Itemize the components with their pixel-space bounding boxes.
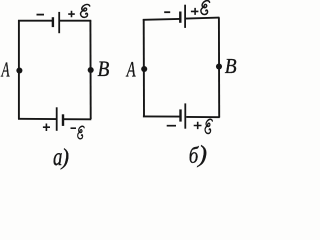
circuit a): top wire right segment (60, 20, 91, 22)
circuit b): bottom wire right segment (186, 116, 220, 118)
svg-text:B: B (98, 58, 110, 81)
circuit b): bottom wire left segment (143, 115, 180, 117)
node A (circuit a) (16, 67, 22, 73)
label minus of GB2 (71, 127, 77, 129)
circuit b): right wire (218, 17, 220, 117)
circuit a): left wire (18, 20, 20, 119)
circuit a): right wire (89, 20, 91, 119)
node A (circuit b) (141, 66, 147, 72)
label EMF of GB4 (205, 119, 212, 133)
label plus of GB3 (191, 8, 199, 15)
svg-text:): ) (196, 140, 207, 168)
circuit b): left wire (143, 19, 145, 117)
svg-text:B: B (225, 55, 237, 78)
node B (circuit a) (88, 67, 94, 73)
circuit a): bottom wire right segment (64, 118, 92, 120)
label plus of GB4 (194, 122, 202, 129)
battery GB1 positive (long) plate (58, 12, 60, 33)
label EMF of GB3 (201, 1, 210, 15)
circuit b): top wire left segment (143, 18, 180, 21)
label minus of GB1 (37, 14, 45, 16)
label plus of GB1 (68, 11, 75, 18)
battery GB2 negative (short) plate (62, 114, 64, 126)
battery GB2 positive (long) plate (56, 107, 58, 131)
svg-text:): ) (60, 144, 69, 169)
label plus of GB2 (43, 124, 50, 132)
circuit a): bottom wire left segment (18, 118, 56, 120)
battery GB4 negative (short) plate (179, 109, 181, 121)
circuit b): top wire right segment (186, 18, 219, 19)
label EMF of GB2 (78, 126, 85, 139)
node B (circuit b) (216, 63, 222, 69)
label minus of GB4 (167, 125, 176, 127)
battery GB3 negative (short) plate (179, 12, 181, 23)
label EMF of GB1 (81, 4, 90, 17)
circuit a): top wire left segment (18, 20, 52, 22)
battery GB4 positive (long) plate (184, 103, 186, 128)
svg-text:A: A (125, 58, 136, 83)
svg-text:A: A (1, 59, 10, 82)
label minus of GB3 (164, 11, 170, 13)
battery GB3 positive (long) plate (184, 5, 186, 28)
battery GB1 negative (short) plate (52, 17, 54, 27)
